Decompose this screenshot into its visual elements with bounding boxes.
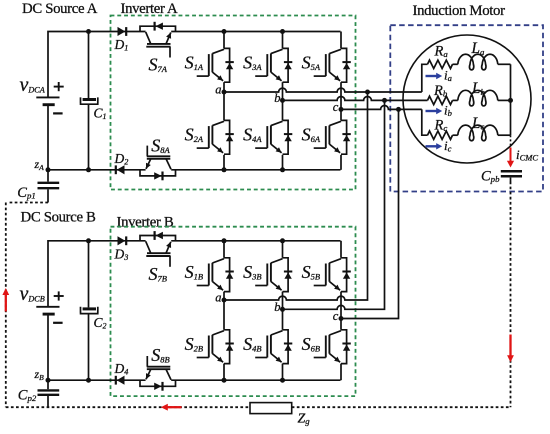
node a inverter A <box>215 82 226 96</box>
current arrow ground up <box>2 288 9 312</box>
wire leg a bottom stub B <box>223 364 225 381</box>
diode D4 <box>116 376 125 385</box>
wire leg a middle B <box>223 292 225 330</box>
wire Rc to Lc <box>453 134 458 136</box>
label iCMC <box>516 147 538 163</box>
IGBT S2B <box>197 330 234 364</box>
node star b <box>508 98 513 103</box>
wire top bus B <box>171 240 340 242</box>
IGBT S3A <box>255 48 292 82</box>
node c inverter B <box>333 309 344 323</box>
capacitor C1 <box>80 97 99 104</box>
current arrow ic <box>426 143 443 149</box>
IGBT S5A <box>314 48 351 82</box>
label S7A <box>149 54 168 74</box>
IGBT S4A <box>255 120 292 154</box>
wire leg b bottom stub B <box>282 364 284 381</box>
wire battery A to zA <box>47 106 49 170</box>
label S4B <box>243 334 261 354</box>
wire leg c middle A <box>340 82 342 120</box>
node leg a bottom bus A <box>222 167 227 172</box>
title DC Source B <box>21 210 97 226</box>
node leg c bottom bus B <box>0 0 1 1</box>
IGBT S6B <box>314 330 351 364</box>
node C1 bottom <box>86 167 91 172</box>
svg-text:Inverter B: Inverter B <box>117 214 174 230</box>
label Lb <box>471 80 486 97</box>
wire leg a middle A <box>223 82 225 120</box>
wire leg b top stub A <box>282 32 284 49</box>
label S1B <box>185 262 203 282</box>
inductor Lc <box>458 125 498 141</box>
label S2B <box>185 334 203 354</box>
wire bottom bus A <box>48 169 341 171</box>
svg-text:Inverter A: Inverter A <box>121 1 179 17</box>
node leg b bottom bus B <box>280 378 285 383</box>
svg-text:c: c <box>333 100 339 114</box>
capacitor Cp2 <box>38 380 60 407</box>
title DC Source A <box>22 1 98 17</box>
svg-text:Induction Motor: Induction Motor <box>413 3 506 19</box>
IGBT S6A <box>314 120 351 154</box>
label S5A <box>302 53 321 73</box>
label Ra <box>434 44 449 60</box>
wire phase b to motor <box>283 97 428 101</box>
node b inverter A <box>274 91 285 105</box>
wire DC source B top <box>48 241 146 306</box>
dotted bottom rail right <box>292 406 511 408</box>
inductor La <box>458 54 498 70</box>
node C2 bottom <box>86 378 91 383</box>
node C1 top <box>86 29 91 34</box>
wire C1 branch bottom <box>88 105 90 170</box>
diode D1 <box>118 27 127 36</box>
wire leg c bottom stub A <box>340 155 342 170</box>
title Inverter B <box>117 214 174 230</box>
motor stator circle <box>403 35 531 163</box>
label ib <box>444 103 452 119</box>
node leg c top bus A <box>0 0 1 1</box>
node C2 top <box>86 238 91 243</box>
title Inverter A <box>121 1 179 17</box>
label vDCA <box>20 74 46 96</box>
label S3A <box>243 53 262 73</box>
node leg a top bus A <box>222 29 227 34</box>
svg-text:b: b <box>274 91 280 105</box>
IGBT S1B <box>197 258 234 292</box>
node leg c top bus B <box>0 0 1 1</box>
wire leg c top stub B <box>340 241 342 258</box>
node phase b tap <box>382 98 387 103</box>
wire inverter B phase a link <box>224 92 368 300</box>
label S1A <box>185 53 204 73</box>
IGBT S1A <box>197 48 234 82</box>
wire leg b bottom stub A <box>282 155 284 170</box>
wire inverter B phase c link <box>341 109 399 318</box>
current arrow iCMC <box>507 148 514 168</box>
label S6B <box>302 334 320 354</box>
label D2 <box>114 151 129 167</box>
label S6A <box>302 125 321 145</box>
label S3B <box>243 262 261 282</box>
dotted bottom rail left <box>6 406 250 408</box>
title Induction Motor <box>413 3 506 19</box>
wire phase c to motor <box>341 106 428 136</box>
resistor Rb <box>428 96 453 104</box>
node leg b top bus B <box>280 238 285 243</box>
svg-text:a: a <box>215 290 221 304</box>
diode D3 <box>118 236 127 245</box>
node leg c bottom bus A <box>0 0 1 1</box>
label S4A <box>243 125 262 145</box>
capacitor C2 <box>80 307 99 314</box>
node leg b top bus A <box>280 29 285 34</box>
dotted right rail <box>510 182 512 408</box>
label D4 <box>114 361 129 377</box>
node b inverter B <box>274 300 285 314</box>
label D1 <box>114 37 129 53</box>
label vDCB <box>20 283 45 305</box>
IGBT S8B <box>140 356 176 391</box>
label C1 <box>94 106 107 122</box>
wire leg c middle B <box>340 292 342 330</box>
wire Lc to star <box>498 134 511 136</box>
node leg a top bus B <box>222 238 227 243</box>
battery VDCB <box>36 291 63 322</box>
IGBT S7A <box>140 22 176 58</box>
node c inverter A <box>333 100 344 114</box>
label D3 <box>114 246 129 262</box>
current arrow ia <box>426 73 443 79</box>
wire Lb to star <box>498 99 511 101</box>
svg-text:DC Source A: DC Source A <box>22 1 98 17</box>
inductor Lb <box>458 90 498 106</box>
label Zg <box>298 412 311 427</box>
node zA <box>34 157 51 172</box>
wire La to star <box>498 63 511 65</box>
label Lc <box>471 115 485 132</box>
label ia <box>444 68 452 84</box>
wire leg b top stub B <box>282 241 284 258</box>
IGBT S8A <box>140 146 176 181</box>
wire star to Cpb <box>510 135 512 146</box>
wire leg c top stub A <box>340 32 342 49</box>
impedance Zg <box>250 403 292 414</box>
label C2 <box>94 315 107 331</box>
dotted left rail <box>5 203 7 408</box>
wire C2 branch bottom <box>88 314 90 380</box>
wire leg a top stub A <box>223 32 225 49</box>
resistor Rc <box>428 131 453 139</box>
node phase c tap <box>396 107 401 112</box>
wire C1 branch top <box>88 32 90 99</box>
current arrow bottom left <box>161 404 182 411</box>
inverter A boundary box <box>111 16 356 190</box>
svg-text:DC Source B: DC Source B <box>21 210 97 226</box>
IGBT S7B <box>140 231 176 267</box>
label S7B <box>149 264 167 284</box>
wire DC source A top <box>48 32 146 97</box>
capacitor Cp1 <box>38 170 60 203</box>
wire C2 branch top <box>88 241 90 308</box>
label Cpb <box>481 169 500 185</box>
svg-text:b: b <box>274 300 280 314</box>
wire Rb to Lb <box>453 99 458 101</box>
svg-text:a: a <box>215 82 221 96</box>
inverter B boundary box <box>111 227 356 396</box>
svg-text:c: c <box>333 309 339 323</box>
wire leg b middle B <box>282 292 284 330</box>
wire bottom bus B <box>48 379 341 381</box>
label S8B <box>151 345 169 365</box>
node a inverter B <box>215 290 226 304</box>
label S8A <box>151 136 170 156</box>
dotted wire Cp1 to left rail <box>8 202 49 204</box>
node leg b bottom bus A <box>280 167 285 172</box>
wire leg a top stub B <box>223 241 225 258</box>
resistor Ra <box>428 60 453 68</box>
wire top bus A <box>171 31 340 33</box>
node leg a bottom bus B <box>222 378 227 383</box>
wire Ra to La <box>453 63 458 65</box>
capacitor Cpb <box>501 171 522 181</box>
induction motor boundary box <box>390 25 543 191</box>
battery VDCA <box>36 82 63 113</box>
label Cp2 <box>18 388 37 404</box>
IGBT S3B <box>255 258 292 292</box>
label Rb <box>433 83 448 99</box>
diode D2 <box>116 165 125 174</box>
IGBT S4B <box>255 330 292 364</box>
label S2A <box>185 125 204 145</box>
wire motor star bus <box>510 64 512 135</box>
wire phase a to motor <box>224 64 428 92</box>
label La <box>471 40 486 57</box>
current arrow ib <box>426 108 443 114</box>
node zB <box>34 367 51 383</box>
wire battery B to zB <box>47 315 49 380</box>
IGBT S5B <box>314 258 351 292</box>
label Cp1 <box>17 185 35 201</box>
current arrow right down <box>507 335 514 363</box>
IGBT S2A <box>197 120 234 154</box>
label ic <box>444 138 452 154</box>
wire leg b middle A <box>282 82 284 120</box>
wire leg c bottom stub B <box>340 364 342 381</box>
label Rc <box>434 118 448 134</box>
wire leg a bottom stub A <box>223 155 225 170</box>
label S5B <box>302 262 320 282</box>
wire inverter B phase b link <box>283 100 385 309</box>
node phase a tap <box>365 90 370 95</box>
